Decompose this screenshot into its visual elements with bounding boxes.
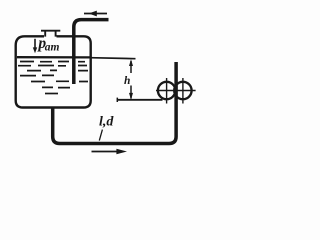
h dimension line (upper segment with up arrow) [130,61,132,73]
svg-text:h: h [124,75,130,87]
inlet pipe (down into tank from top bend) [74,20,109,84]
outlet pipe: tank bottom, bottom run, riser to pump and above [53,62,176,144]
pump cross horizontal [156,90,196,92]
h dimension line (lower segment with down arrow) [130,86,132,99]
pump cross vertical left [166,78,168,104]
water dashes row 6 [42,86,70,88]
tank (reservoir outline with hatch gap in lid) [16,36,91,107]
reference line end tick [116,98,118,102]
suction axis reference line [117,99,162,101]
inlet flow arrow (points left) [84,13,107,15]
water dashes row 4 [20,74,54,76]
pump circle left [158,82,175,99]
pump circle right [174,82,191,99]
water dashes row 1 [20,61,85,63]
leader line from label to pipe [99,130,102,141]
hatch cover on lid [41,31,60,37]
svg-text:am: am [45,42,60,54]
surface reference extension [90,58,136,59]
water dashes row 3 [27,69,88,71]
pipe flow arrow (points right) [92,151,119,153]
water dashes row 5 [31,80,88,82]
svg-text:l,d: l,d [99,115,114,130]
pump cross vertical right [182,78,184,104]
water dashes row 2 [18,65,87,67]
water dashes row 7 [45,93,58,95]
atmospheric pressure arrow [34,39,36,49]
water surface line [17,56,90,59]
